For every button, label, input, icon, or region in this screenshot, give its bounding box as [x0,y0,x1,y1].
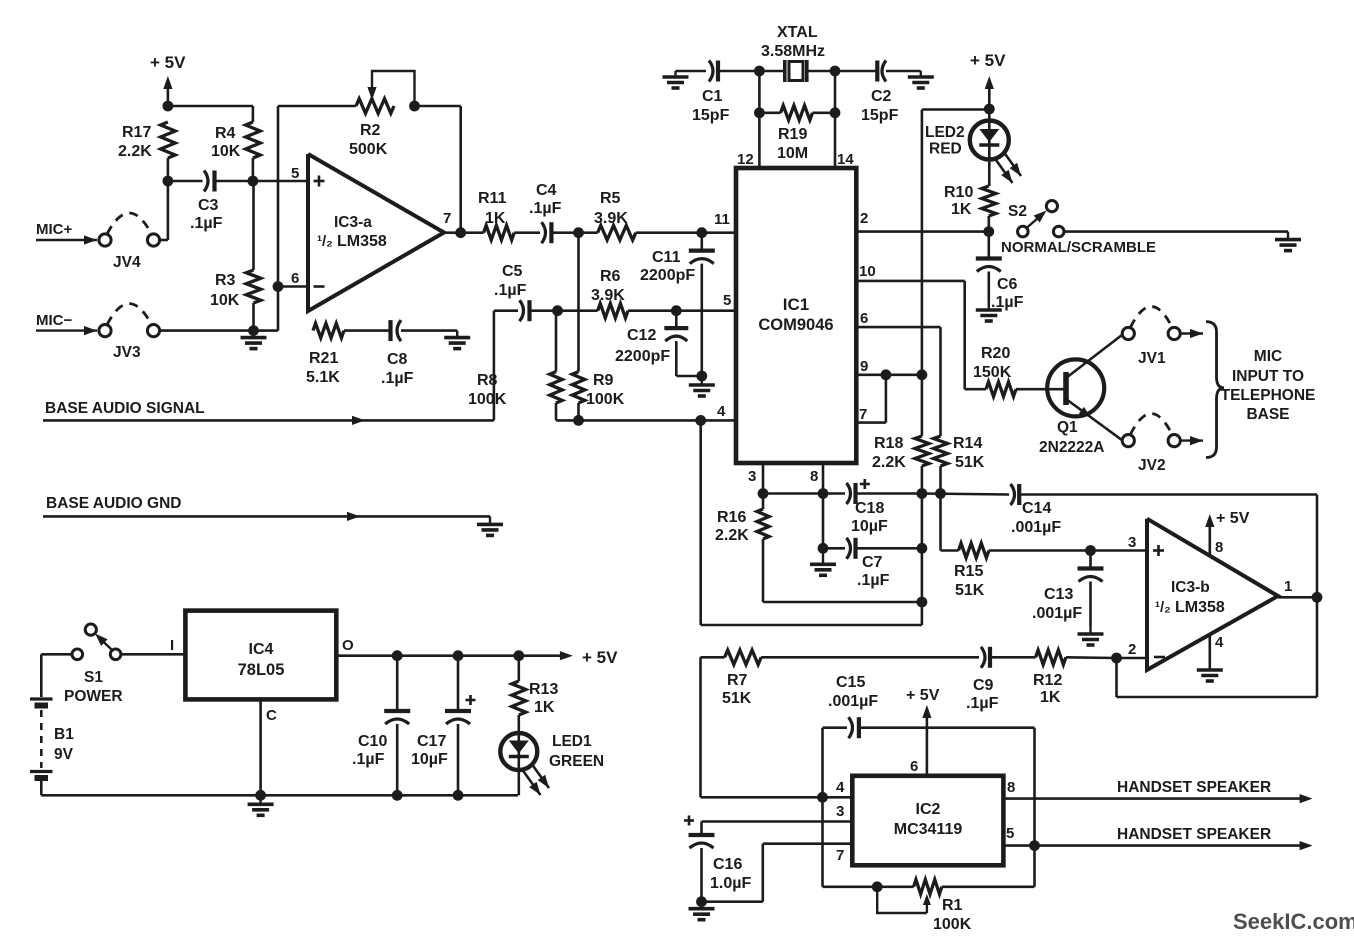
wire pin 3 row [702,822,853,834]
node R14 bottom junction [935,488,946,499]
svg-text:100K: 100K [468,391,507,408]
wire R11 to C4 [514,231,540,234]
svg-text:5: 5 [723,292,731,309]
label R17 value [118,124,152,160]
node pin 3 junction [758,488,769,499]
label MIC+ [36,221,72,238]
wire C15 loop left vertical [821,728,824,887]
label R21 value [306,350,340,386]
label C14 value [1011,500,1061,536]
svg-text:NORMAL/SCRAMBLE: NORMAL/SCRAMBLE [1001,239,1156,256]
wire R21 to C8 [344,329,390,332]
svg-text:Q1: Q1 [1057,419,1078,436]
label C3 value [190,197,223,232]
svg-text:C17: C17 [417,733,446,750]
transistor Q1 2N2222A [1047,335,1122,441]
svg-text:R17: R17 [122,124,151,141]
resistor R8 [550,311,563,421]
svg-text:10µF: 10µF [411,751,448,768]
node C7 right junction [917,543,928,554]
wire +5V node to long vertical [922,110,989,375]
wire C14 to output corner [1019,495,1317,598]
node R19 left junction [754,107,765,118]
node R19 right junction [830,107,841,118]
node R2 right junction [409,101,420,112]
svg-text:HANDSET SPEAKER: HANDSET SPEAKER [1117,779,1271,796]
label JV4 [113,254,141,271]
svg-text:11: 11 [714,211,730,228]
svg-text:2.2K: 2.2K [118,143,152,160]
wire R16 bottom row [763,601,922,604]
svg-text:10µF: 10µF [851,518,888,535]
label COM9046 [758,316,833,334]
label pin 3 IC1 [748,468,756,485]
label pin 6 IC2 [910,758,918,775]
C15 loop top row [823,726,1035,729]
resistor R16 [757,494,769,603]
label IC4 pin I [170,637,174,654]
svg-text:+ 5V: + 5V [150,53,186,72]
label pin 14 IC1 [837,151,854,168]
svg-text:6: 6 [910,758,918,775]
resistor R3 [246,181,261,303]
node pin6 junction [273,281,284,292]
svg-text:C18: C18 [855,500,884,517]
wire pin4 branch down [701,420,922,625]
label R5 value [594,190,628,227]
label B1 [54,726,74,743]
label JV2 [1138,457,1166,474]
svg-text:3.58MHz: 3.58MHz [761,43,825,60]
node R17 top junction [163,101,174,112]
label C15 value [828,674,878,710]
svg-text:MIC−: MIC− [36,312,72,329]
svg-text:R4: R4 [215,125,236,142]
node R13 top junction [513,650,524,661]
svg-text:1K: 1K [951,201,972,218]
svg-text:R10: R10 [944,184,973,201]
wire JV3 to R21 row [159,329,278,332]
label TELEPHONE [1221,387,1316,404]
ground under C11 [689,376,715,396]
wire feedback bottom loop [1117,597,1318,697]
svg-text:+ 5V: + 5V [906,687,940,704]
wire pin 8 row / handset speaker 1 [1003,794,1312,803]
label INPUT TO [1232,368,1304,385]
svg-text:R18: R18 [874,435,903,452]
node R16 row junction [917,597,928,608]
wire IC4 output rail [336,651,573,660]
label R7 value [722,672,752,707]
svg-text:INPUT TO: INPUT TO [1232,368,1304,385]
label IC4 pin O [342,637,354,654]
label LED2 [925,124,965,141]
wire BASE AUDIO SIGNAL lead [43,416,494,425]
svg-text:5: 5 [1006,825,1014,842]
label pin 5 IC2 [1006,825,1014,842]
label pin 9 IC1 [860,358,868,375]
jumper JV2 [1122,414,1180,447]
capacitor C17 (polarized) [445,656,476,796]
svg-text:¹/₂: ¹/₂ [317,233,333,250]
resistor R14 [934,436,948,466]
resistor R4 [246,122,261,158]
svg-text:R20: R20 [981,345,1010,362]
svg-text:S2: S2 [1008,203,1027,220]
svg-text:3.9K: 3.9K [591,287,625,304]
label pin 8 IC3-b [1215,539,1223,556]
wire pin 5 row / handset speaker 2 [1003,841,1312,850]
wire R14 node down to R15 [941,494,959,551]
svg-text:JV2: JV2 [1138,457,1166,474]
svg-text:O: O [342,637,354,654]
label +5V rail [582,648,618,667]
label POWER [64,688,123,705]
label pin 11 IC1 [714,211,730,228]
ground right of C2 [908,71,934,88]
power +5V label IC2 [906,687,940,704]
wire pin 8 stub [822,463,825,494]
wire pin3 to C18 [763,492,845,495]
IC U1 COM9046 box [736,168,856,463]
node S2 junction [983,226,994,237]
svg-text:+ 5V: + 5V [970,51,1006,70]
wire C3 right to op-amp pin 5 [215,158,309,181]
svg-text:1K: 1K [1040,689,1061,706]
resistor R19 [781,106,813,121]
wire R7 to C9 [761,656,979,659]
node C17 bottom junction [453,790,464,801]
svg-text:B1: B1 [54,726,74,743]
wire XTAL to C2 [835,70,878,73]
svg-text:IC3-a: IC3-a [334,214,372,231]
svg-text:HANDSET SPEAKER: HANDSET SPEAKER [1117,826,1271,843]
label pin 7 IC3-a [443,210,451,227]
svg-text:+ 5V: + 5V [1216,510,1250,527]
resistor R20 [986,382,1016,397]
svg-text:14: 14 [837,151,854,168]
label IC1 [783,295,809,314]
svg-text:R6: R6 [600,268,621,285]
wire S2 to right ground [1064,230,1288,233]
svg-text:S1: S1 [84,669,103,686]
svg-text:C14: C14 [1022,500,1051,517]
label R9 value [586,372,625,408]
svg-text:1: 1 [1284,578,1292,595]
label C12 value [615,327,670,365]
capacitor C6 [976,232,1002,272]
wire battery to S1 [41,654,72,697]
ground left of C1 [663,71,689,88]
wire pin8 stub down to C7 [822,494,825,549]
wire C8 to ground [401,329,457,332]
svg-text:C15: C15 [836,674,865,691]
wire pin10 corner to R20 [965,388,986,391]
wire R8/R9 bottoms to pin 4 node [556,419,701,422]
op-amp IC3-a triangle [308,154,444,311]
svg-text:4: 4 [1215,634,1224,651]
wire pin6 feedback vertical [278,106,308,287]
label pin 4 IC3-b [1215,634,1224,651]
wire C2 to ground [886,70,921,73]
label pin 4 IC1 [717,403,726,420]
wire C5 to R6 [530,309,598,312]
resistor R15 [959,543,989,558]
svg-text:150K: 150K [973,364,1012,381]
svg-text:1K: 1K [485,210,506,227]
node pin 5 IC2 junction [1029,840,1040,851]
svg-text:51K: 51K [722,690,752,707]
wire IC4 common pin [259,699,262,795]
label R19 value [777,126,808,162]
svg-text:R19: R19 [778,126,807,143]
label pin 3 IC3-b [1128,534,1136,551]
wire MIC+ lead [36,235,97,244]
svg-text:C4: C4 [536,182,557,199]
label LED2 RED [929,141,962,158]
label R11 value [478,190,507,227]
wire C18 row to C14 [922,494,1009,495]
wire C18 to R18 node [856,492,922,495]
wire C1 to XTAL node [718,70,759,73]
ground under C16 [689,902,715,920]
wire JV4 to bias node [159,181,168,240]
label S2 [1008,203,1027,220]
svg-text:IC1: IC1 [783,295,809,314]
label IC4 [249,641,274,658]
label JV1 [1138,350,1166,367]
svg-text:C: C [266,707,277,724]
svg-text:R16: R16 [717,509,746,526]
label C2 value [861,88,899,124]
svg-text:3: 3 [748,468,756,485]
node C10 top junction [392,650,403,661]
resistor R17 [161,122,176,158]
wire MIC- lead [36,326,97,335]
wire pin 14 drop [834,71,837,168]
svg-text:15pF: 15pF [692,107,730,124]
svg-text:C9: C9 [973,677,994,694]
node IC3-a output [455,227,466,238]
resistor R21 [313,323,344,338]
label MIC- [36,312,72,329]
node C17 top junction [453,650,464,661]
svg-text:78L05: 78L05 [238,661,285,679]
svg-text:.1µF: .1µF [857,572,890,589]
svg-text:JV4: JV4 [113,254,141,271]
resistor R6 [598,303,628,318]
label R2 value [349,122,388,158]
label R8 value [468,372,507,408]
node R9 top junction [573,227,584,238]
svg-text:3: 3 [836,803,844,820]
svg-text:.001µF: .001µF [1011,519,1061,536]
power +5V arrow top-left [163,76,172,106]
capacitor C11 [689,233,715,264]
svg-text:C2: C2 [871,88,892,105]
label pin 7 IC1 [859,406,867,423]
label pin 1 IC3-b [1284,578,1292,595]
capacitor C9 [981,647,990,668]
resistor R7 [725,650,762,665]
node C12 top junction [671,305,682,316]
svg-text:2.2K: 2.2K [715,527,749,544]
svg-text:XTAL: XTAL [777,24,818,41]
wire R19 right stub [813,112,836,115]
brace MIC INPUT TO TELEPHONE BASE [1206,322,1224,458]
label B1 9V [54,746,74,763]
capacitor C18 (polarized) [847,479,870,504]
svg-text:LED2: LED2 [925,124,965,141]
wire pin 4 row [701,419,736,422]
label XTAL [777,24,818,41]
label C5 value [494,263,527,299]
wire pin 12 drop [758,113,761,168]
svg-text:JV1: JV1 [1138,350,1166,367]
svg-text:7: 7 [859,406,867,423]
node R8 top junction [552,305,563,316]
label MIC [1254,348,1282,365]
node R3 bottom junction [248,325,259,336]
wire pin 7 row [856,375,886,423]
op-amp IC3-b triangle [1147,519,1278,670]
wire C11 to ground node [700,264,703,376]
wire BASE AUDIO GND lead [43,512,490,521]
svg-text:.1µF: .1µF [381,370,414,387]
svg-text:C3: C3 [198,197,219,214]
label LED1 [552,733,592,750]
label MC34119 [894,821,963,838]
wire pin 7 row [702,844,853,902]
svg-text:GREEN: GREEN [549,753,604,770]
wire R14 bottom [939,466,942,494]
label 1/2 LM358 (IC3-b) [1155,599,1225,616]
label pin 12 IC1 [737,151,754,168]
ground under R3 [241,331,267,349]
svg-text:C16: C16 [713,856,742,873]
wire C6 to ground [987,272,990,304]
power +5V arrow IC2 pin 6 [922,705,931,776]
resistor R10 [982,186,996,216]
svg-text:7: 7 [443,210,451,227]
wire S1 to IC4 input [121,653,185,656]
resistor R12 [1036,650,1066,665]
svg-text:C1: C1 [702,88,723,105]
wire LED1 bottom [517,771,520,795]
watermark SeekIC.com [1233,909,1354,934]
power +5V arrow top-right [985,76,994,109]
wire +5V node to R4 column [168,106,253,122]
wire ground to C1 [676,70,707,73]
svg-text:BASE AUDIO GND: BASE AUDIO GND [46,495,182,512]
svg-text:+ 5V: + 5V [582,648,618,667]
switch S1 [72,624,121,660]
label BASE AUDIO SIGNAL [45,400,205,417]
wire C9 to R12 [990,656,1036,659]
svg-text:5: 5 [291,165,299,182]
svg-text:R5: R5 [600,190,621,207]
svg-text:C10: C10 [358,733,387,750]
svg-text:I: I [170,637,174,654]
label pin 7 IC2 [836,847,844,864]
ground under pin8 stub [810,548,836,575]
node R4 bottom junction [248,176,259,187]
svg-text:R14: R14 [953,435,982,452]
node C10 bottom junction [392,790,403,801]
svg-text:C6: C6 [997,276,1018,293]
node pin9 +5V junction [917,369,928,380]
resistor R11 [484,225,515,240]
label R12 value [1033,672,1062,706]
label pin 8 IC2 [1007,779,1015,796]
wire R17 bottom [167,158,170,181]
wire R5 to pin 11 [636,231,736,234]
svg-text:MIC+: MIC+ [36,221,72,238]
wire C4 to R5 [551,231,597,234]
capacitor C4 [542,222,552,243]
ground after C8 [444,331,470,349]
switch S2 [1018,201,1064,237]
svg-text:.1µF: .1µF [529,200,562,217]
wire pin 2 row [856,230,984,233]
svg-text:C11: C11 [652,249,681,266]
svg-text:R15: R15 [954,563,983,580]
svg-text:C7: C7 [862,554,883,571]
svg-text:2.2K: 2.2K [872,454,906,471]
capacitor C2 [877,61,886,82]
svg-text:12: 12 [737,151,754,168]
node pin 2 junction [1111,653,1122,664]
svg-text:4: 4 [717,403,726,420]
node XTAL right junction [830,66,841,77]
svg-text:1.0µF: 1.0µF [710,875,751,892]
label R1 value [933,897,972,933]
capacitor C3 [204,171,215,192]
wire R2 to output [415,106,461,233]
svg-text:.001µF: .001µF [1032,605,1082,622]
svg-text:2: 2 [1128,641,1136,658]
svg-text:8: 8 [1215,539,1223,556]
label R15 value [954,563,985,599]
wire R6 to pin 5 [628,309,736,312]
svg-text:2200pF: 2200pF [640,267,695,284]
svg-text:POWER: POWER [64,688,123,705]
label pin 6 IC1 [860,310,868,327]
label R20 value [973,345,1012,381]
node C11 top junction [696,227,707,238]
node IC4 common junction [255,790,266,801]
label R13 value [529,681,558,716]
svg-text:LM358: LM358 [337,233,387,250]
capacitor C5 [520,300,530,321]
wire R19 left stub [759,112,780,115]
svg-text:2200pF: 2200pF [615,348,670,365]
node R1 left junction [872,881,883,892]
svg-text:SeekIC.com: SeekIC.com [1233,909,1354,934]
label C16 value [710,856,751,892]
svg-text:6: 6 [860,310,868,327]
node C11/C12 ground junction [696,371,707,382]
label IC3-b [1171,579,1210,596]
svg-text:R11: R11 [478,190,507,207]
svg-text:100K: 100K [586,391,625,408]
label BASE [1246,406,1289,423]
label pin 10 IC1 [859,263,876,280]
label C1 value [692,88,730,124]
svg-text:4: 4 [836,779,845,796]
label R16 value [715,509,749,544]
label R14 value [953,435,985,471]
